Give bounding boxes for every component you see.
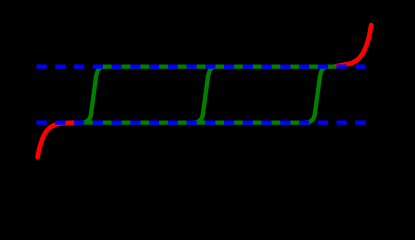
- green S-transition 3: [305, 67, 330, 123]
- red trajectory tail lower-left: [38, 123, 76, 158]
- blue dashed upper equilibrium line: [37, 64, 366, 68]
- green solution along upper equilibrium line: [103, 64, 336, 68]
- green solution along lower equilibrium line: [76, 120, 310, 124]
- blue dashed lower equilibrium line: [37, 120, 366, 124]
- green S-transition 2: [193, 67, 218, 123]
- green S-transition 1: [82, 67, 107, 123]
- red trajectory tail upper-right: [336, 25, 371, 66]
